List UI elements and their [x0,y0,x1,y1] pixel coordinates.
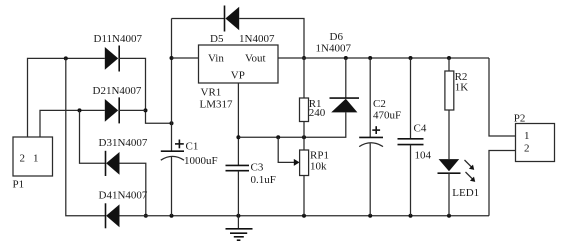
junction R1 bottom / RP1 top [302,135,306,139]
wire D1/D2 cathodes to DC+ node [119,58,171,123]
svg-text:P2: P2 [514,113,526,125]
junction C4 top [409,56,413,60]
svg-text:0.1uF: 0.1uF [251,174,276,186]
ground [226,216,253,241]
junction ADJ at VP [236,135,240,139]
diode D2 [105,97,119,123]
junction C2 top [368,56,372,60]
svg-text:D6: D6 [330,31,344,43]
wire C2 bottom [369,144,371,216]
wire P1 pin2 to D1 anode [28,58,105,137]
junction DC+ at C1 [170,121,174,125]
junction C2 bottom [368,214,372,218]
svg-text:D21N4007: D21N4007 [93,85,142,97]
svg-text:2: 2 [524,143,530,155]
junction D2 cathode [144,108,148,112]
junction R2 top [447,56,451,60]
wire Vin to LM317 [172,57,199,59]
junction LED1 bottom [447,214,451,218]
svg-text:C4: C4 [414,122,427,134]
svg-text:C3: C3 [251,162,264,174]
wire R1 to ADJ [303,122,305,151]
svg-text:D5: D5 [210,33,224,45]
svg-text:10k: 10k [310,161,327,173]
svg-text:VP: VP [231,70,245,82]
regulator U/VR1 LM317 box [199,45,279,83]
svg-text:D11N4007: D11N4007 [94,33,143,45]
wire rail to R1 [303,58,305,98]
svg-text:104: 104 [415,150,432,162]
diode D4 [106,203,120,228]
svg-text:1: 1 [524,130,530,142]
junction R1 top [302,56,306,60]
diode D1 [105,46,119,72]
svg-text:C2: C2 [373,98,386,110]
wire AC2 to D3 cathode [80,110,106,163]
svg-text:Vin: Vin [208,53,224,65]
svg-text:LM317: LM317 [200,98,234,110]
Vout rail [278,57,489,59]
wire VP pin to C3 [237,83,239,165]
node AC2 junction [78,108,82,112]
diode D6 [330,98,360,112]
wire P2 pin2 to ground [489,151,516,216]
wire R2 to LED1 [448,110,450,159]
svg-text:1N4007: 1N4007 [239,33,275,45]
svg-text:1N4007: 1N4007 [316,43,352,55]
connector P1 [13,137,53,176]
capacitor C1 [161,140,184,161]
wire D3 anode to ground rail [120,163,146,215]
svg-text:Vout: Vout [245,53,266,65]
ADJ line [238,112,345,137]
wire rail to R2 [448,58,450,71]
svg-text:RP1: RP1 [310,149,329,161]
svg-text:LED1: LED1 [452,187,479,199]
junction wiper tap [276,135,280,139]
svg-text:C1: C1 [186,140,199,152]
junction RP1 bottom [302,214,306,218]
junction D6 top [344,56,348,60]
svg-text:2: 2 [20,153,26,165]
wire AC1 to D4 cathode [66,58,105,215]
top rail right segment [239,19,304,59]
capacitor C4 [398,139,424,145]
svg-text:D31N4007: D31N4007 [99,137,148,149]
connector P2 [516,124,555,162]
svg-text:VR1: VR1 [201,86,222,98]
wire RP1 wiper [278,137,299,166]
svg-text:240: 240 [309,107,326,119]
wire C3 bottom to ground [237,171,239,216]
wire LED1 to ground [448,173,450,216]
wire C1 bottom [171,157,173,216]
svg-text:1K: 1K [455,82,469,94]
diode D3 [106,151,120,176]
wire D2 cathode stub [119,109,145,111]
svg-text:1000uF: 1000uF [184,155,218,167]
wire rail to C4 [410,58,412,139]
wire rail to C2 [369,58,371,137]
wire rail to D6 [345,58,347,98]
LED LED1 [438,159,461,173]
ground rail [120,215,490,217]
svg-text:470uF: 470uF [373,110,401,122]
junction C1 bottom [170,214,174,218]
wire RP1 bottom to ground [303,176,305,216]
wire P1 pin1 to D2 anode [40,110,105,137]
junction C4 bottom [409,214,413,218]
node AC1 junction [64,56,68,60]
wire Vin node vertical [171,19,173,152]
diode D5 [225,6,240,32]
LED1 emission arrow 1 [465,160,475,170]
capacitor C3 [226,165,250,170]
junction Vin branch [170,56,174,60]
svg-text:1: 1 [33,153,39,165]
potentiometer RP1 [300,150,309,176]
junction ground symbol [236,214,240,218]
junction D3/D4 anodes [144,214,148,218]
svg-text:D41N4007: D41N4007 [99,190,148,202]
top rail left segment [172,18,225,20]
wire C4 bottom [410,145,412,216]
svg-text:P1: P1 [13,179,25,191]
capacitor C2 [359,126,383,146]
resistor R2 [445,71,454,110]
wire Vout rail to P2 pin1 [489,58,516,136]
resistor R1 [300,98,309,122]
LED1 emission arrow 2 [466,172,476,182]
